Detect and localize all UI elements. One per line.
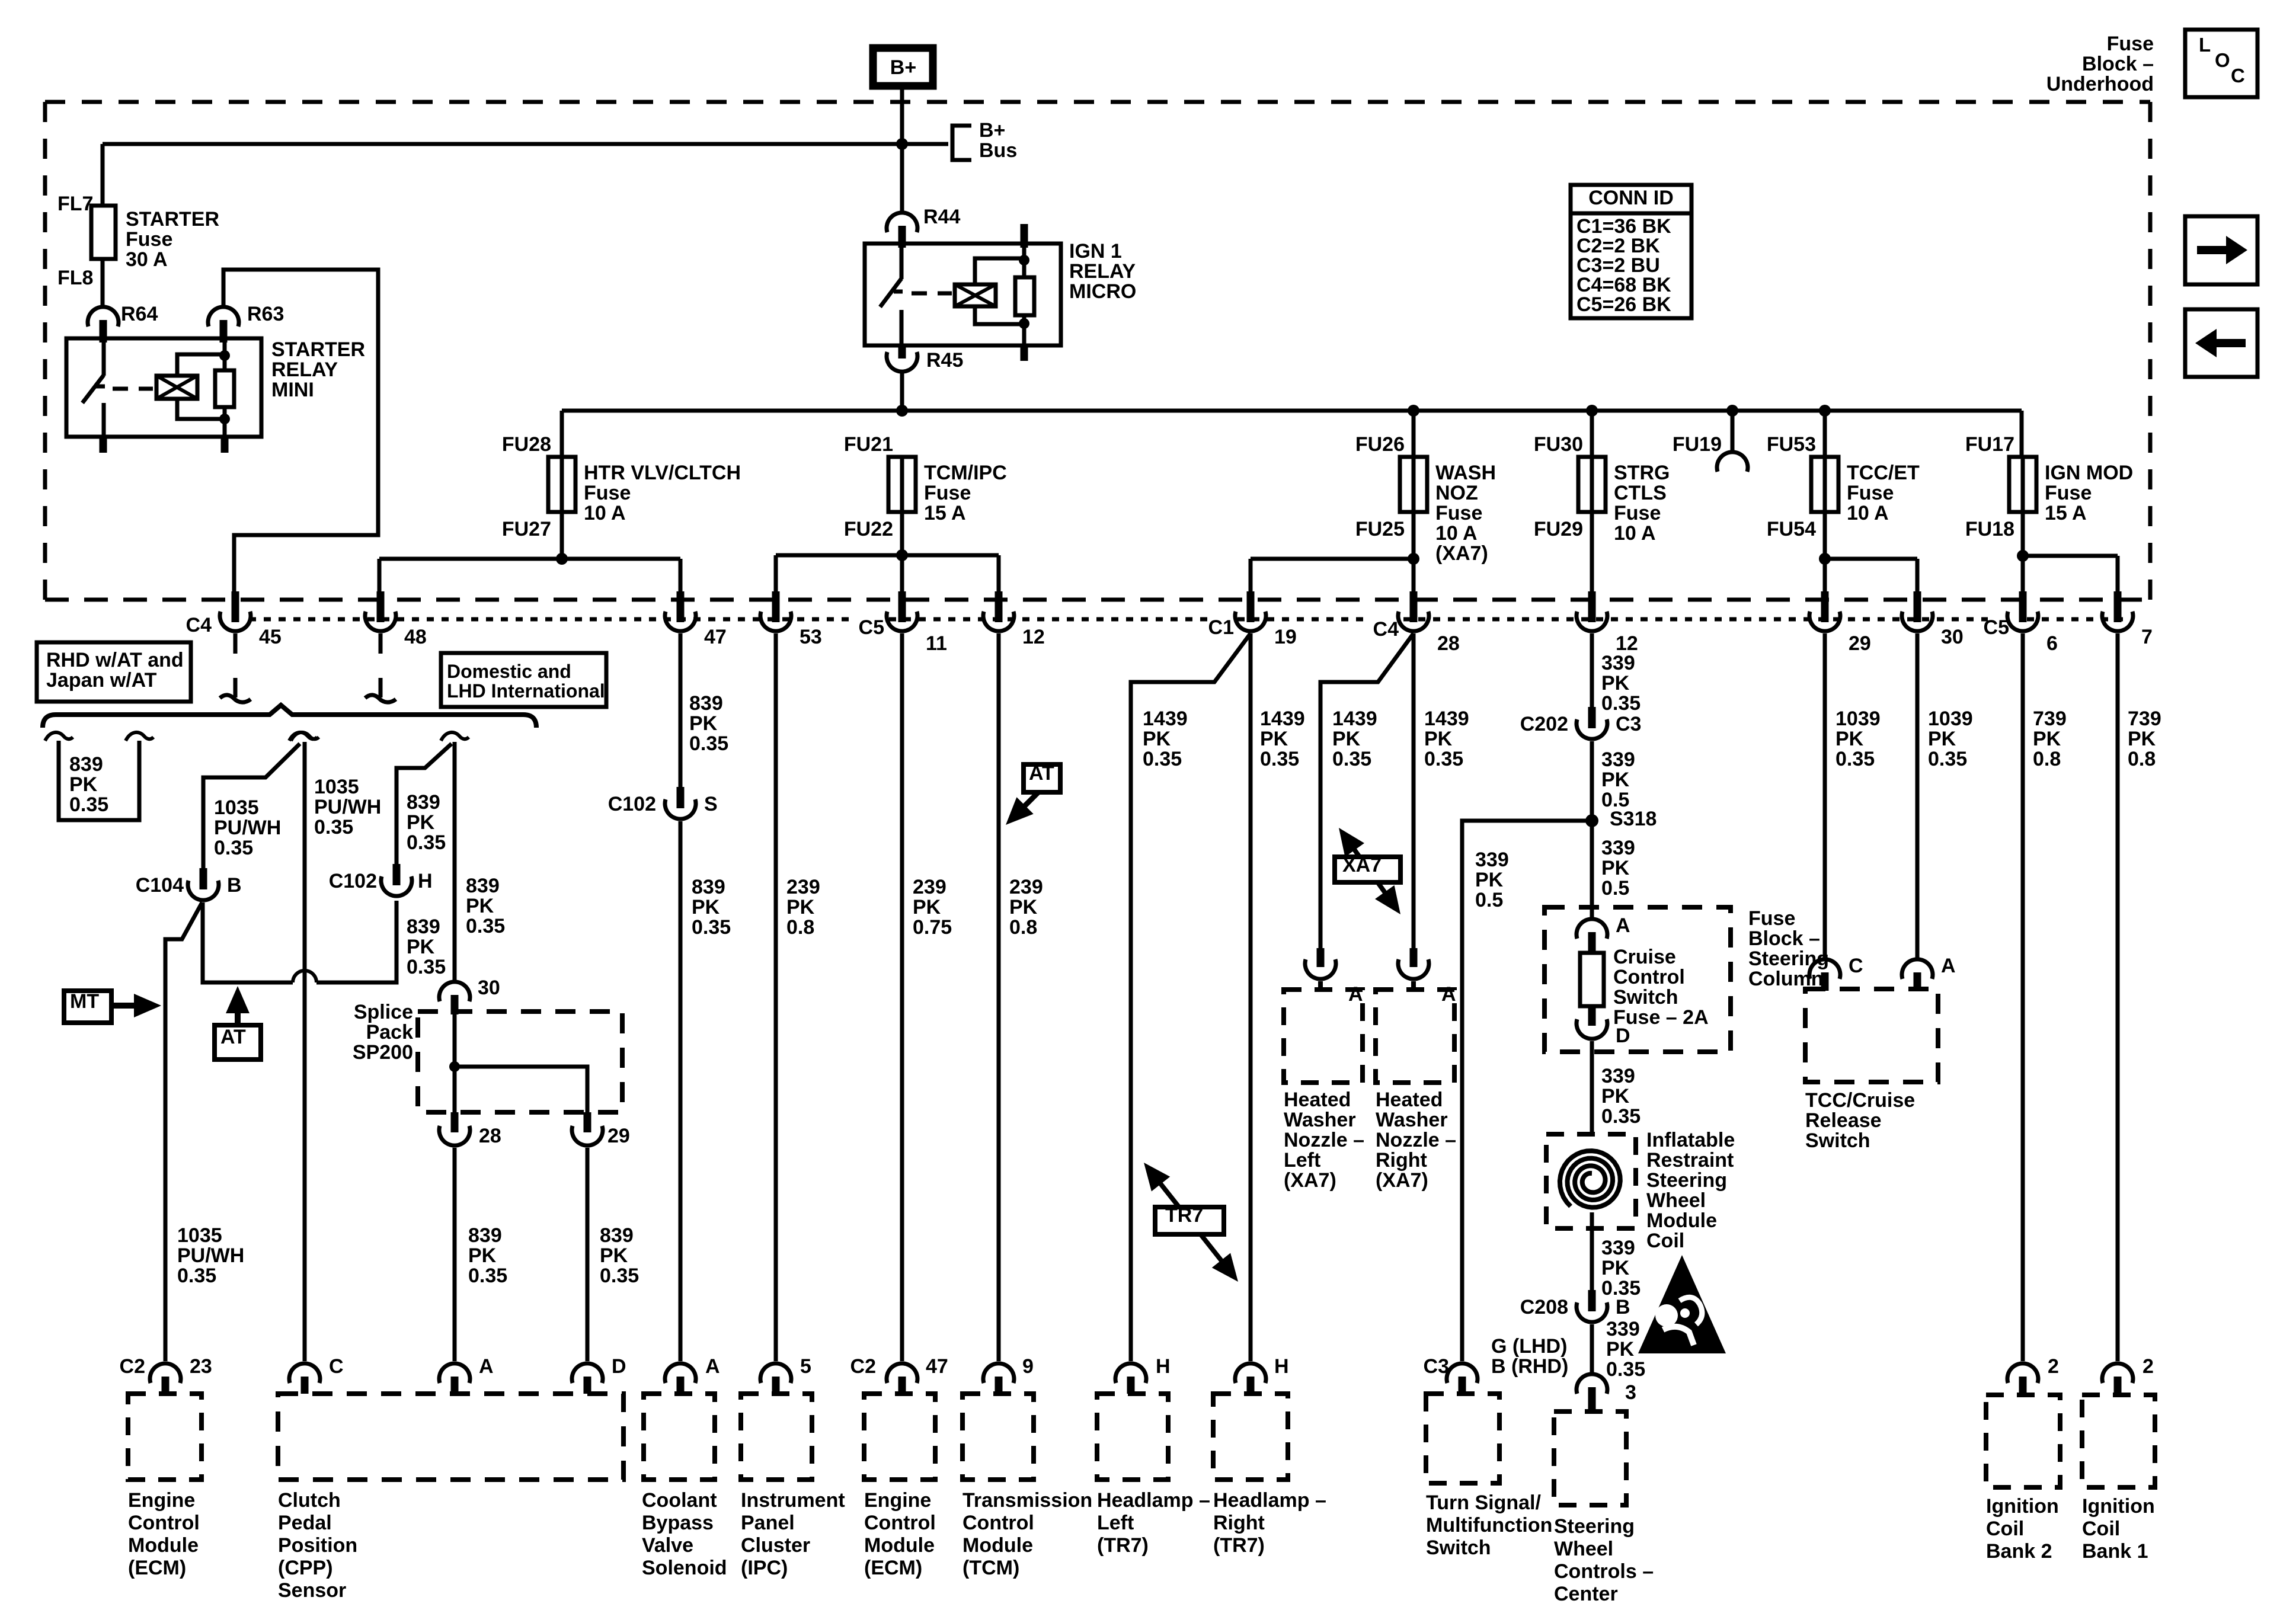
wire end curl 1035 CPP	[291, 732, 319, 741]
svg-text:PK: PK	[913, 896, 941, 918]
svg-text:839: 839	[468, 1224, 502, 1247]
connector C1 pin 19	[1247, 591, 1255, 622]
wire FU22 to branch	[900, 512, 904, 558]
wire 19 down to headlamp right	[1249, 633, 1253, 1361]
wire jog to C102 H	[396, 744, 452, 867]
connector C4 pin 47	[677, 591, 685, 622]
connector C4 pin 53	[772, 591, 780, 622]
node distribution FU19	[1726, 405, 1738, 417]
svg-text:FU29: FU29	[1534, 518, 1583, 540]
svg-text:MT: MT	[70, 990, 99, 1013]
starter relay coil top wire	[177, 354, 225, 376]
svg-text:PK: PK	[2128, 728, 2156, 750]
svg-text:0.35: 0.35	[407, 831, 446, 854]
connector row dotted line segment 2	[889, 617, 1211, 622]
svg-text:0.8: 0.8	[2033, 748, 2061, 770]
svg-text:Block –: Block –	[1748, 927, 1820, 950]
connector C104 B	[200, 868, 207, 889]
svg-text:839: 839	[69, 753, 103, 776]
svg-text:XA7: XA7	[1342, 854, 1382, 876]
svg-text:239: 239	[913, 876, 946, 898]
connector pin R45 cup	[887, 352, 917, 372]
svg-text:Heated: Heated	[1376, 1089, 1443, 1111]
svg-text:Left: Left	[1284, 1149, 1320, 1172]
wire end curl loop left	[45, 732, 73, 741]
AT callout box col12	[1024, 764, 1060, 792]
svg-text:D: D	[612, 1355, 626, 1378]
svg-text:Ignition: Ignition	[2082, 1495, 2155, 1518]
connector C202 C3	[1588, 707, 1596, 728]
svg-text:FL7: FL7	[57, 193, 93, 215]
svg-text:Transmission: Transmission	[962, 1489, 1092, 1512]
fuse FU26 WASH NOZ 10A	[1400, 457, 1427, 512]
svg-text:Valve: Valve	[642, 1534, 693, 1557]
svg-text:1439: 1439	[1424, 708, 1469, 730]
starter relay internal lead bottom	[223, 407, 227, 437]
svg-text:0.35: 0.35	[692, 916, 731, 939]
svg-text:0.35: 0.35	[1601, 692, 1641, 715]
TR7 box redraw	[1155, 1207, 1224, 1234]
pin stub starter relay bottom right	[221, 437, 229, 453]
wire B+ bus to starter fuse	[101, 144, 105, 207]
arrow left reference box	[2185, 309, 2257, 377]
XA7 box redraw	[1335, 857, 1400, 882]
svg-text:0.8: 0.8	[2128, 748, 2156, 770]
connector TCC A dome	[1902, 959, 1933, 979]
svg-text:FU18: FU18	[1965, 518, 2014, 540]
svg-text:H: H	[1274, 1355, 1289, 1378]
connector CPP A	[439, 1363, 470, 1383]
wire R45 to distribution	[900, 373, 904, 411]
svg-text:0.35: 0.35	[1143, 748, 1182, 770]
IGN1 coil bottom wire	[975, 306, 1024, 324]
IGN1 coil top wire	[975, 258, 1024, 284]
connector splice 30 dome	[439, 982, 470, 1001]
wire branch down to connector 28	[1412, 559, 1416, 595]
wire branch down to connector 6	[2021, 556, 2025, 595]
fuse FU53 TCC/ET 10A	[1811, 457, 1838, 512]
svg-text:3: 3	[1625, 1381, 1636, 1404]
wire 12 down to TCM 9	[997, 633, 1001, 1361]
connector nozzle left A	[1317, 948, 1325, 967]
svg-text:PU/WH: PU/WH	[177, 1244, 244, 1267]
wire 839 loop	[59, 741, 139, 820]
starter relay R63 internal lead	[223, 343, 227, 370]
svg-text:PK: PK	[689, 712, 718, 735]
wire C102 S down to coolant A	[679, 821, 683, 1361]
splice pack SP200 dashed box	[418, 1012, 622, 1112]
svg-text:HTR VLV/CLTCH: HTR VLV/CLTCH	[584, 462, 741, 484]
svg-text:12: 12	[1022, 626, 1045, 648]
svg-text:30: 30	[1941, 626, 1964, 648]
svg-text:Washer: Washer	[1284, 1109, 1356, 1131]
wire distribution corner to FU17	[2020, 411, 2024, 458]
svg-text:1039: 1039	[1835, 708, 1881, 730]
svg-text:Module: Module	[962, 1534, 1033, 1557]
wire splice branch	[455, 1067, 587, 1112]
svg-text:339: 339	[1475, 849, 1509, 871]
wire branch down to connector 19	[1249, 559, 1253, 595]
wire 1035 down to CPP C	[303, 742, 307, 1361]
pin stub R45	[898, 345, 906, 359]
wire branch down to connector 11	[900, 555, 904, 595]
node distribution FU53	[1819, 405, 1831, 417]
svg-text:PK: PK	[1143, 728, 1171, 750]
svg-text:48: 48	[404, 626, 427, 648]
svg-text:0.35: 0.35	[1606, 1358, 1645, 1381]
svg-text:Fuse: Fuse	[1614, 502, 1661, 524]
svg-text:MICRO: MICRO	[1069, 280, 1136, 303]
arrow right glyph	[2197, 246, 2228, 254]
starter relay switch upper contact	[102, 343, 106, 376]
svg-text:Clutch: Clutch	[278, 1489, 341, 1512]
svg-text:Fuse: Fuse	[584, 482, 631, 504]
wire C104 AT path	[203, 902, 293, 982]
svg-text:Module: Module	[1646, 1209, 1717, 1232]
svg-text:TCC/ET: TCC/ET	[1847, 462, 1920, 484]
svg-text:Steering: Steering	[1646, 1169, 1727, 1192]
svg-text:C3: C3	[1616, 713, 1641, 735]
svg-text:STARTER: STARTER	[126, 208, 219, 231]
svg-text:C102: C102	[329, 870, 377, 892]
fuse block underhood dashed border top	[45, 100, 2150, 104]
svg-text:R63: R63	[247, 303, 284, 325]
wire C104 MT jog	[165, 902, 202, 1361]
pin stub TCC C	[1821, 972, 1829, 991]
svg-text:Right: Right	[1213, 1512, 1265, 1534]
svg-text:Fuse: Fuse	[1748, 907, 1795, 930]
svg-text:FU53: FU53	[1767, 433, 1816, 456]
wire branch down to connector 29	[1823, 559, 1827, 595]
svg-text:10 A: 10 A	[1847, 502, 1889, 524]
svg-text:H: H	[418, 870, 433, 892]
connector headlamp right H	[1235, 1363, 1266, 1383]
svg-text:Heated: Heated	[1284, 1089, 1351, 1111]
svg-text:6: 6	[2046, 632, 2058, 655]
connector row dotted line segment 5	[2027, 617, 2129, 622]
wire AT hop over 514	[293, 971, 316, 982]
svg-text:339: 339	[1601, 1237, 1635, 1259]
svg-text:PK: PK	[1601, 672, 1630, 694]
starter relay coil bottom wire	[177, 399, 225, 419]
starter relay switch tick	[96, 385, 105, 389]
svg-text:B+: B+	[890, 56, 916, 79]
heated washer nozzle left box	[1284, 990, 1363, 1083]
pin stub C3 turn signal	[1459, 1377, 1466, 1394]
fuse block underhood dashed border right	[2148, 102, 2153, 600]
svg-text:TR7: TR7	[1165, 1204, 1203, 1227]
wire splice internal down	[453, 1014, 457, 1112]
wire FU29 down to connector 12	[1590, 512, 1594, 595]
svg-text:STARTER: STARTER	[271, 338, 365, 361]
pin stub splice 29	[584, 1112, 591, 1132]
wire end curl 1035	[289, 732, 317, 741]
pin stub cruise A	[1588, 932, 1596, 954]
svg-text:839: 839	[692, 876, 725, 898]
wire coil to C208	[1590, 1212, 1594, 1293]
svg-text:0.35: 0.35	[1835, 748, 1875, 770]
wire branch down to connector 48	[378, 559, 382, 595]
wire branch down to connector 7	[2116, 556, 2120, 595]
svg-text:739: 739	[2128, 708, 2161, 730]
svg-text:IGN 1: IGN 1	[1069, 240, 1122, 263]
svg-text:(XA7): (XA7)	[1376, 1169, 1428, 1192]
svg-text:Fuse: Fuse	[2107, 33, 2154, 55]
wire FU22 branch horizontal	[776, 553, 999, 558]
pin stub starter relay bottom left	[100, 437, 107, 453]
pin stub R44	[898, 226, 906, 248]
svg-text:C208: C208	[1520, 1296, 1568, 1318]
svg-text:MINI: MINI	[271, 379, 314, 401]
svg-text:Pedal: Pedal	[278, 1512, 332, 1534]
svg-text:C: C	[1849, 955, 1863, 977]
connector coolant A	[665, 1363, 696, 1383]
svg-text:Release: Release	[1805, 1109, 1882, 1132]
svg-text:Coolant: Coolant	[642, 1489, 717, 1512]
svg-text:47: 47	[704, 626, 727, 648]
svg-text:239: 239	[1009, 876, 1043, 898]
svg-text:Fuse: Fuse	[126, 228, 172, 251]
fuse FU21 TCM/IPC 15A	[888, 457, 916, 512]
connector FU19 dome	[1717, 452, 1748, 472]
svg-text:Headlamp –: Headlamp –	[1097, 1489, 1210, 1512]
svg-text:C: C	[2231, 65, 2245, 87]
svg-text:C104: C104	[136, 874, 184, 897]
svg-text:PK: PK	[2033, 728, 2061, 750]
node FU25 branch	[1408, 553, 1419, 565]
svg-text:Restraint: Restraint	[1646, 1149, 1734, 1172]
connector pin 30	[1914, 591, 1921, 622]
svg-text:PK: PK	[1475, 869, 1504, 891]
connector C5 pin 7	[2114, 591, 2122, 622]
svg-text:B: B	[1616, 1296, 1630, 1318]
XA7 arrow	[1352, 847, 1387, 895]
wire FU18 to branch	[2021, 512, 2025, 558]
pin stub R63	[220, 320, 228, 343]
node starter relay coil bottom	[219, 414, 230, 424]
svg-text:L: L	[2199, 34, 2211, 56]
wire FU54 branch horizontal	[1825, 557, 1917, 561]
connector pin R63 dome	[208, 307, 239, 327]
IGN1 coil box	[955, 284, 996, 306]
svg-text:0.35: 0.35	[314, 816, 353, 838]
node B+ bus junction	[896, 138, 908, 150]
node distribution FU26	[1408, 405, 1419, 417]
starter relay switch lower contact	[102, 403, 106, 437]
svg-text:Module: Module	[864, 1534, 935, 1557]
wire 11 down to ECM 47	[900, 633, 904, 1361]
IGN1 actuation dashed link	[912, 292, 952, 296]
headlamp left box	[1097, 1394, 1168, 1480]
svg-text:PK: PK	[1928, 728, 1956, 750]
svg-text:30 A: 30 A	[126, 248, 168, 271]
svg-text:0.35: 0.35	[177, 1265, 216, 1287]
svg-text:Panel: Panel	[741, 1512, 795, 1534]
ignition coil bank 2 box	[1986, 1395, 2060, 1487]
svg-text:CTLS: CTLS	[1614, 482, 1667, 504]
svg-text:Coil: Coil	[1646, 1230, 1684, 1252]
wire 19 jog to headlamp left	[1131, 633, 1251, 1361]
svg-text:Headlamp –: Headlamp –	[1213, 1489, 1326, 1512]
svg-text:Coil: Coil	[2082, 1518, 2120, 1540]
wire end curl 839 splice	[441, 732, 469, 741]
wire 28 down to nozzle right	[1412, 633, 1416, 958]
wire 48 below connector	[379, 633, 383, 654]
svg-text:7: 7	[2141, 626, 2153, 648]
svg-text:28: 28	[1437, 632, 1460, 655]
svg-text:(CPP): (CPP)	[278, 1557, 333, 1579]
svg-text:C4: C4	[1373, 618, 1399, 641]
svg-text:0.35: 0.35	[1332, 748, 1371, 770]
connector ECM2 C2 47	[887, 1363, 917, 1383]
wire C208 to steering wheel controls	[1590, 1324, 1594, 1374]
fuse FU17 wire through	[2021, 457, 2025, 512]
steering wheel controls dashed box	[1554, 1411, 1626, 1505]
svg-text:Turn Signal/: Turn Signal/	[1426, 1491, 1541, 1514]
wire 12 down to C202	[1590, 633, 1594, 710]
node IGN1 coil bottom	[1019, 318, 1029, 329]
fuse FU30 wire through	[1590, 411, 1594, 512]
svg-text:Fuse: Fuse	[2045, 482, 2092, 504]
svg-text:339: 339	[1601, 748, 1635, 771]
svg-text:Controls –: Controls –	[1554, 1560, 1654, 1583]
svg-text:PK: PK	[407, 811, 435, 834]
svg-text:1439: 1439	[1260, 708, 1305, 730]
connector splice 29 cup	[572, 1126, 603, 1145]
wire 30 down to TCC A	[1916, 633, 1920, 959]
svg-text:839: 839	[600, 1224, 634, 1247]
svg-text:PK: PK	[600, 1244, 628, 1267]
fuse block steering column dashed box	[1544, 907, 1731, 1052]
svg-text:D: D	[1616, 1025, 1630, 1047]
svg-text:(IPC): (IPC)	[741, 1557, 788, 1579]
svg-text:WASH: WASH	[1435, 462, 1496, 484]
svg-text:PK: PK	[786, 896, 815, 918]
svg-text:RELAY: RELAY	[271, 359, 338, 381]
svg-text:STRG: STRG	[1614, 462, 1670, 484]
pin stub splice 30	[451, 995, 459, 1014]
svg-text:PK: PK	[1601, 857, 1630, 879]
svg-text:0.35: 0.35	[1928, 748, 1967, 770]
svg-text:2: 2	[2048, 1355, 2059, 1378]
svg-text:FU28: FU28	[502, 433, 551, 456]
svg-text:PK: PK	[407, 936, 435, 958]
svg-text:R44: R44	[923, 206, 960, 228]
node FU54 branch	[1819, 553, 1831, 565]
svg-text:0.35: 0.35	[1424, 748, 1463, 770]
svg-text:Bus: Bus	[979, 139, 1017, 162]
svg-text:839: 839	[407, 916, 440, 938]
svg-text:839: 839	[466, 875, 500, 897]
IGN 1 relay box	[865, 244, 1061, 345]
starter relay coil X	[156, 376, 197, 399]
svg-text:C1: C1	[1208, 616, 1234, 639]
node FU22 branch	[896, 549, 908, 561]
fuse FU30 STRG CTLS 10A	[1578, 457, 1606, 512]
svg-text:0.8: 0.8	[786, 916, 814, 939]
svg-text:PK: PK	[1601, 1257, 1630, 1279]
TCC cruise release switch dashed box	[1805, 989, 1938, 1082]
svg-text:339: 339	[1601, 837, 1635, 859]
svg-text:PK: PK	[69, 773, 98, 796]
wire distribution corner to FU28	[560, 411, 564, 458]
svg-text:339: 339	[1606, 1318, 1640, 1340]
wire branch down to connector 53	[774, 555, 778, 595]
engine control module box	[128, 1394, 202, 1480]
svg-text:H: H	[1156, 1355, 1171, 1378]
svg-text:Center: Center	[1554, 1583, 1618, 1605]
svg-text:(TR7): (TR7)	[1097, 1534, 1149, 1557]
fuse cruise control switch 2A	[1580, 953, 1604, 1006]
power feed B+ box	[873, 48, 933, 86]
connector IPC 5	[760, 1363, 791, 1383]
svg-text:PK: PK	[1332, 728, 1361, 750]
svg-text:S: S	[704, 793, 718, 815]
svg-text:1035: 1035	[314, 776, 359, 798]
svg-text:Inflatable: Inflatable	[1646, 1129, 1735, 1151]
connector pin R64 dome	[88, 307, 119, 327]
svg-text:Right: Right	[1376, 1149, 1427, 1172]
svg-text:Multifunction: Multifunction	[1426, 1514, 1552, 1537]
connector 3 dome	[1576, 1374, 1607, 1394]
AT arrow col12	[1022, 792, 1038, 808]
svg-text:B: B	[227, 874, 242, 897]
svg-text:PU/WH: PU/WH	[214, 817, 281, 839]
svg-text:45: 45	[259, 626, 282, 648]
svg-text:(TR7): (TR7)	[1213, 1534, 1265, 1557]
instrument panel cluster box	[741, 1394, 812, 1480]
IGN1 internal lead bottom	[1022, 315, 1027, 345]
wire C202 to S318	[1590, 741, 1594, 821]
svg-text:G (LHD): G (LHD)	[1491, 1335, 1567, 1358]
wire cruise D down to coil	[1590, 1041, 1594, 1135]
LOC reference box	[2185, 30, 2257, 97]
svg-text:FU19: FU19	[1673, 433, 1722, 456]
svg-text:Nozzle –: Nozzle –	[1284, 1129, 1364, 1151]
connector CPP D	[572, 1363, 603, 1383]
node distribution FU21	[896, 405, 908, 417]
svg-text:1039: 1039	[1928, 708, 1973, 730]
svg-text:0.75: 0.75	[913, 916, 952, 939]
svg-text:RELAY: RELAY	[1069, 260, 1136, 283]
engine control module 2 box	[864, 1394, 935, 1480]
svg-text:Module: Module	[128, 1534, 199, 1557]
svg-text:Instrument: Instrument	[741, 1489, 845, 1512]
pin stub 3	[1588, 1387, 1596, 1410]
starter relay switch blade	[82, 375, 104, 403]
connector pin 29	[1821, 591, 1829, 622]
arrow right reference box	[2185, 216, 2257, 284]
svg-text:29: 29	[607, 1125, 630, 1147]
svg-text:0.35: 0.35	[1260, 748, 1299, 770]
svg-text:Japan w/AT: Japan w/AT	[46, 669, 157, 692]
starter relay coil box	[156, 376, 197, 399]
starter relay box	[66, 338, 261, 437]
svg-text:10 A: 10 A	[584, 502, 626, 524]
connector CPP C	[289, 1363, 320, 1383]
svg-text:Wheel: Wheel	[1554, 1538, 1613, 1560]
svg-text:10 A: 10 A	[1435, 522, 1478, 545]
svg-text:TCM/IPC: TCM/IPC	[924, 462, 1007, 484]
node distribution FU30	[1586, 405, 1598, 417]
svg-text:A: A	[1941, 955, 1956, 977]
ignition coil bank 1 box	[2082, 1395, 2155, 1487]
coolant bypass valve solenoid box	[644, 1394, 715, 1480]
svg-text:0.8: 0.8	[1009, 916, 1037, 939]
svg-text:Fuse: Fuse	[1847, 482, 1894, 504]
wire S318 down to cruise fuse	[1590, 821, 1594, 919]
IGN1 switch tick	[894, 290, 903, 294]
